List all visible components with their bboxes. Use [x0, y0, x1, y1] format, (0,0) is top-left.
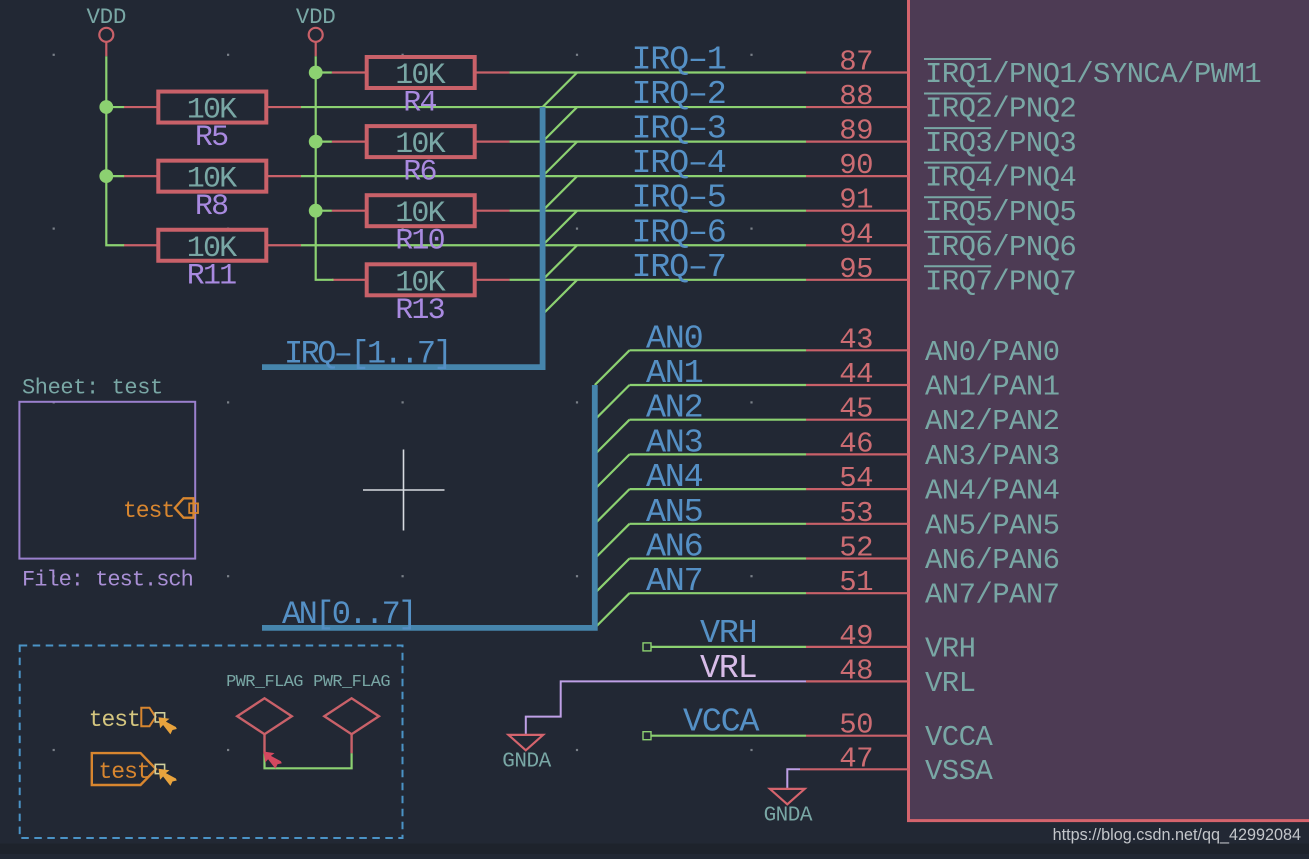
- svg-text:IRQ7/PNQ7: IRQ7/PNQ7: [925, 265, 1076, 298]
- wire between PWR_FLAGs: [265, 753, 352, 768]
- pin 87 IRQ1/PNQ1/SYNCA/PWM1 of U1: [806, 46, 1261, 92]
- hierarchical label test #1: [89, 707, 165, 733]
- svg-text:AN1: AN1: [646, 355, 703, 393]
- svg-text:AN0: AN0: [646, 320, 703, 358]
- svg-text:PWR_FLAG: PWR_FLAG: [313, 673, 390, 692]
- resistor R4 10K: [332, 57, 509, 121]
- wire VDD to R5: [106, 106, 124, 108]
- wire net AN1: [630, 384, 807, 386]
- svg-text:R13: R13: [395, 294, 444, 328]
- pin 54 AN4/PAN4 of U1: [806, 462, 1059, 508]
- bus entry IRQ-6: [543, 245, 578, 280]
- svg-text:AN3/PAN3: AN3/PAN3: [925, 440, 1059, 473]
- wire net IRQ-3: [510, 141, 807, 143]
- open end VCCA: [643, 732, 651, 740]
- resistor R8 10K: [124, 161, 301, 225]
- pin 49 VRH of U1: [806, 620, 975, 666]
- svg-text:VDD: VDD: [86, 4, 126, 30]
- svg-text:88: 88: [839, 80, 873, 113]
- svg-text:AN7/PAN7: AN7/PAN7: [925, 579, 1059, 612]
- svg-text:AN2: AN2: [646, 390, 702, 428]
- svg-text:test: test: [123, 498, 174, 524]
- svg-text:IRQ1/PNQ1/SYNCA/PWM1: IRQ1/PNQ1/SYNCA/PWM1: [925, 58, 1261, 91]
- power flag PWR_FLAG #2: [313, 673, 390, 753]
- svg-text:54: 54: [839, 462, 873, 495]
- svg-text:AN0/PAN0: AN0/PAN0: [925, 336, 1059, 369]
- svg-text:AN5/PAN5: AN5/PAN5: [925, 509, 1059, 542]
- bus entry AN5: [595, 524, 630, 559]
- resistor R6 10K: [332, 126, 509, 190]
- svg-text:IRQ–7: IRQ–7: [632, 249, 726, 287]
- pin 50 VCCA of U1: [806, 709, 993, 755]
- svg-text:AN5: AN5: [646, 494, 702, 532]
- bus entry AN6: [595, 559, 630, 594]
- bus entry AN3: [595, 454, 630, 489]
- pin 43 AN0/PAN0 of U1: [806, 323, 1059, 369]
- wire net IRQ-6: [301, 244, 807, 246]
- power symbol VDD #2: [296, 4, 336, 56]
- power flag PWR_FLAG #1: [226, 673, 303, 753]
- bus entry IRQ-7: [543, 280, 578, 315]
- svg-text:R8: R8: [195, 190, 228, 224]
- bus entry IRQ-4: [543, 176, 578, 211]
- svg-text:51: 51: [839, 566, 873, 599]
- bus entry IRQ-5: [543, 211, 578, 246]
- svg-text:IRQ6/PNQ6: IRQ6/PNQ6: [925, 231, 1076, 264]
- svg-text:91: 91: [839, 184, 873, 217]
- wire net AN2: [630, 419, 807, 421]
- crosshair cursor: [363, 450, 445, 531]
- svg-text:IRQ–2: IRQ–2: [632, 76, 726, 114]
- bus entry AN2: [595, 420, 630, 455]
- pin 89 IRQ3/PNQ3 of U1: [806, 115, 1076, 161]
- wire net AN6: [630, 557, 807, 559]
- svg-text:52: 52: [839, 532, 873, 565]
- junction B: [99, 169, 113, 183]
- wire net AN4: [630, 488, 807, 490]
- svg-text:53: 53: [839, 497, 873, 530]
- bus IRQ-[1..7]: [262, 107, 543, 367]
- svg-text:test: test: [99, 759, 150, 785]
- svg-text:IRQ–5: IRQ–5: [632, 180, 726, 218]
- svg-text:VRH: VRH: [925, 632, 975, 665]
- sheet pin test: [123, 498, 198, 524]
- resistor R13 10K: [332, 264, 509, 328]
- wire VDD column 1: [106, 56, 124, 245]
- wire net AN3: [630, 453, 807, 455]
- wire VDD column 2: [316, 56, 334, 280]
- svg-text:VRL: VRL: [925, 667, 975, 700]
- svg-text:AN6/PAN6: AN6/PAN6: [925, 544, 1059, 577]
- svg-text:IRQ–6: IRQ–6: [632, 214, 726, 252]
- cursor arrow crimson: [264, 752, 282, 769]
- svg-text:R4: R4: [403, 87, 436, 121]
- wire net AN0: [630, 349, 807, 351]
- pin 53 AN5/PAN5 of U1: [806, 497, 1059, 543]
- svg-text:R6: R6: [403, 156, 436, 190]
- svg-text:IRQ2/PNQ2: IRQ2/PNQ2: [925, 93, 1076, 126]
- svg-text:48: 48: [839, 654, 873, 687]
- svg-text:File: test.sch: File: test.sch: [22, 568, 193, 593]
- resistor R10 10K: [332, 195, 509, 259]
- svg-text:AN4: AN4: [646, 459, 703, 497]
- svg-text:Sheet: test: Sheet: test: [22, 376, 163, 401]
- junction E: [309, 204, 323, 218]
- svg-text:AN6: AN6: [646, 529, 702, 567]
- wire net IRQ-7: [510, 279, 807, 281]
- svg-text:R5: R5: [195, 121, 228, 155]
- wire VSSA to GNDA: [787, 769, 800, 789]
- svg-text:89: 89: [839, 115, 873, 148]
- ground GNDA #2: [764, 789, 813, 828]
- wire VDD to R4: [316, 71, 332, 73]
- pin 47 VSSA of U1: [800, 742, 993, 788]
- wire VDD to R6: [316, 141, 332, 143]
- svg-text:IRQ3/PNQ3: IRQ3/PNQ3: [925, 127, 1076, 160]
- svg-text:IRQ–4: IRQ–4: [632, 145, 726, 183]
- svg-text:IRQ5/PNQ5: IRQ5/PNQ5: [925, 196, 1076, 229]
- resistor R11 10K: [124, 230, 301, 294]
- power symbol VDD #1: [86, 4, 126, 56]
- sheet symbol test: [19, 402, 195, 559]
- wire net IRQ-4: [301, 175, 807, 177]
- svg-text:90: 90: [839, 149, 873, 182]
- svg-text:VCCA: VCCA: [925, 721, 993, 754]
- junction D: [309, 135, 323, 149]
- svg-text:45: 45: [839, 393, 873, 426]
- wire net AN7: [630, 592, 807, 594]
- svg-text:44: 44: [839, 358, 873, 391]
- svg-text:IRQ–[1..7]: IRQ–[1..7]: [284, 336, 450, 373]
- pin 52 AN6/PAN6 of U1: [806, 532, 1059, 578]
- pin 45 AN2/PAN2 of U1: [806, 393, 1059, 439]
- bus AN[0..7]: [262, 385, 595, 628]
- pin 51 AN7/PAN7 of U1: [806, 566, 1059, 612]
- wire net IRQ-2: [301, 106, 807, 108]
- junction A: [99, 100, 113, 114]
- svg-text:PWR_FLAG: PWR_FLAG: [226, 673, 303, 692]
- pin 88 IRQ2/PNQ2 of U1: [806, 80, 1076, 126]
- svg-text:49: 49: [839, 620, 873, 653]
- bus entry IRQ-2: [543, 107, 578, 142]
- svg-text:AN2/PAN2: AN2/PAN2: [925, 405, 1059, 438]
- wire VRL to GNDA: [526, 681, 806, 734]
- svg-text:R10: R10: [395, 225, 444, 259]
- wire net IRQ-1: [510, 71, 807, 73]
- cursor arrow yellow #1: [159, 717, 177, 734]
- cursor arrow yellow #2: [159, 769, 177, 786]
- svg-text:VDD: VDD: [296, 4, 336, 30]
- svg-text:46: 46: [839, 427, 873, 460]
- hierarchical label test #2: [92, 753, 165, 785]
- svg-text:IRQ–1: IRQ–1: [632, 42, 726, 80]
- svg-text:VSSA: VSSA: [925, 755, 993, 788]
- svg-text:AN3: AN3: [646, 424, 702, 462]
- bus entry AN1: [595, 385, 630, 420]
- svg-text:94: 94: [839, 218, 873, 251]
- svg-text:GNDA: GNDA: [764, 805, 813, 828]
- bus entry AN7: [595, 593, 630, 628]
- pin 48 VRL of U1: [806, 654, 975, 700]
- ground GNDA #1: [502, 735, 551, 774]
- svg-text:IRQ–3: IRQ–3: [632, 111, 726, 149]
- svg-text:AN1/PAN1: AN1/PAN1: [925, 371, 1059, 404]
- bus entry IRQ-1: [543, 73, 578, 108]
- svg-text:AN4/PAN4: AN4/PAN4: [925, 475, 1059, 508]
- wire VDD to R8: [106, 175, 124, 177]
- svg-text:test: test: [89, 707, 140, 733]
- svg-text:IRQ4/PNQ4: IRQ4/PNQ4: [925, 162, 1076, 195]
- open end VRH: [643, 643, 651, 651]
- junction C: [309, 66, 323, 80]
- svg-text:AN7: AN7: [646, 563, 702, 601]
- pin 46 AN3/PAN3 of U1: [806, 427, 1059, 473]
- wire VCCA: [651, 735, 806, 737]
- bus entry AN0: [595, 350, 630, 385]
- IC U1 body: [909, 0, 1309, 821]
- resistor R5 10K: [124, 92, 301, 156]
- pin 91 IRQ5/PNQ5 of U1: [806, 184, 1076, 230]
- svg-text:AN[0..7]: AN[0..7]: [282, 596, 415, 633]
- pin 95 IRQ7/PNQ7 of U1: [806, 253, 1076, 299]
- selection box: [20, 646, 403, 839]
- pin 90 IRQ4/PNQ4 of U1: [806, 149, 1076, 195]
- bus entry IRQ-3: [543, 142, 578, 177]
- svg-text:47: 47: [839, 742, 873, 775]
- wire net AN5: [630, 523, 807, 525]
- svg-text:GNDA: GNDA: [502, 751, 551, 774]
- pin 44 AN1/PAN1 of U1: [806, 358, 1059, 404]
- wire VDD to R10: [316, 210, 332, 212]
- bus entry AN4: [595, 489, 630, 524]
- svg-text:R11: R11: [187, 259, 236, 293]
- svg-text:https://blog.csdn.net/qq_42992: https://blog.csdn.net/qq_42992084: [1053, 826, 1301, 844]
- wire VRH: [651, 646, 806, 648]
- svg-text:50: 50: [839, 709, 873, 742]
- svg-text:87: 87: [839, 46, 873, 79]
- pin 94 IRQ6/PNQ6 of U1: [806, 218, 1076, 264]
- svg-text:95: 95: [839, 253, 873, 286]
- wire net IRQ-5: [510, 210, 807, 212]
- svg-text:43: 43: [839, 323, 873, 356]
